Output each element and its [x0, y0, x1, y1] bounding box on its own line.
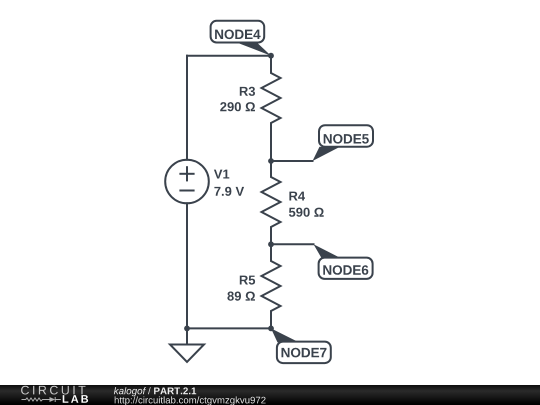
junction dot node NODE7	[268, 326, 274, 332]
junction dot ground net	[184, 326, 190, 332]
node NODE6 flag text	[323, 265, 368, 275]
voltage source V1 circle	[165, 160, 209, 204]
node NODE4 flag text	[215, 30, 261, 40]
node NODE5 flag box	[319, 125, 373, 147]
node NODE6 flag pointer	[314, 244, 341, 258]
node NODE7 flag pointer	[271, 328, 299, 342]
CircuitLab logo wordmark CIRCUIT	[21, 386, 85, 395]
label R3 name	[240, 87, 255, 96]
junction dot node NODE5	[268, 158, 274, 164]
node NODE4 flag box	[211, 21, 265, 43]
label R5 value 89 ohm	[227, 292, 255, 301]
node NODE6 flag box	[319, 258, 373, 279]
wire bottom horizontal NODE7 net	[187, 327, 271, 329]
node NODE7 flag text	[282, 348, 327, 358]
footer bar	[0, 385, 540, 405]
wire top horizontal NODE4 net	[187, 55, 271, 57]
resistor R5	[262, 244, 281, 328]
footer credit line 2 url	[115, 396, 266, 405]
wire ground lead	[186, 328, 188, 344]
node NODE5 flag pointer	[313, 147, 341, 161]
CircuitLab logo resistor-diode glyph	[22, 397, 61, 402]
CircuitLab logo wordmark LAB	[63, 395, 88, 403]
label R4 name	[289, 192, 305, 201]
ground symbol	[170, 345, 204, 363]
junction dot node NODE4	[268, 53, 274, 59]
label V1 value 7.9 V	[214, 187, 244, 196]
wire NODE6 stub	[271, 243, 314, 245]
CircuitLab logo diode arrow	[50, 397, 56, 402]
label R3 value 290 ohm	[220, 102, 255, 111]
resistor R3	[262, 56, 281, 161]
wire NODE5 stub	[271, 160, 313, 162]
wire left vertical upper	[186, 56, 188, 160]
junction dot node NODE6	[268, 241, 274, 247]
node NODE4 flag pointer	[237, 43, 271, 56]
voltage source V1 plus minus marks	[180, 167, 193, 190]
node NODE5 flag text	[324, 134, 369, 144]
wire left vertical lower	[186, 203, 188, 328]
label V1 name	[214, 170, 229, 179]
label R5 name	[240, 276, 255, 285]
footer credit line 1 kalogof / PART.2.1	[114, 387, 196, 396]
label R4 value 590 ohm	[289, 208, 324, 217]
resistor R4	[262, 161, 281, 244]
node NODE7 flag box	[277, 342, 331, 364]
